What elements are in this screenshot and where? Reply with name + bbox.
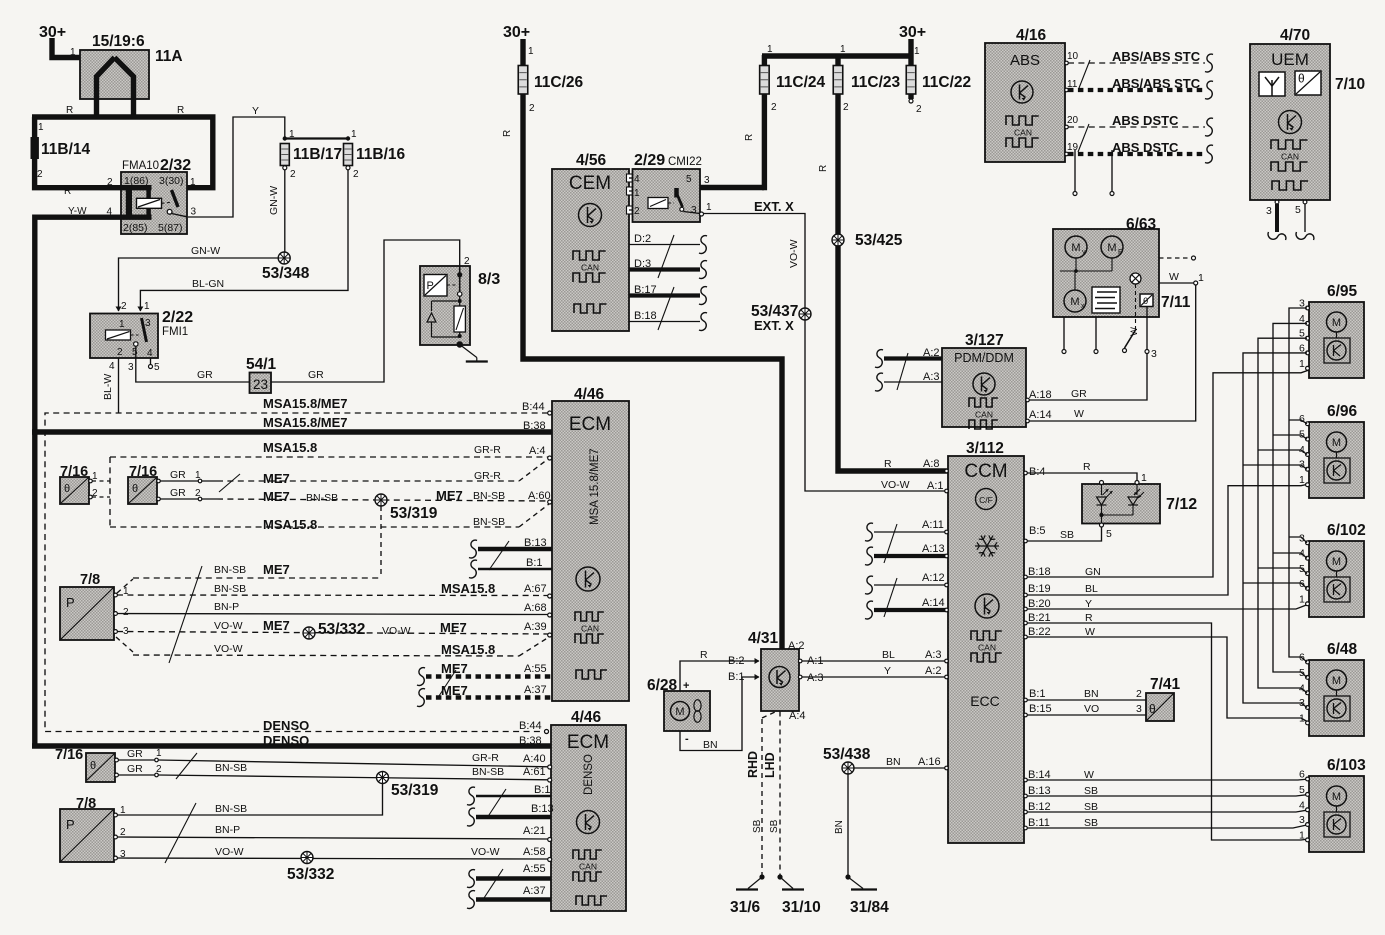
svg-text:2: 2 bbox=[37, 169, 43, 180]
svg-text:20: 20 bbox=[1067, 115, 1079, 126]
svg-text:LHD: LHD bbox=[763, 752, 777, 778]
ground 31/10 bbox=[777, 874, 782, 879]
svg-text:VO-W: VO-W bbox=[214, 643, 243, 655]
svg-text:R: R bbox=[177, 105, 184, 116]
svg-text:1: 1 bbox=[706, 202, 712, 213]
twisted pair marks CEM bbox=[658, 235, 674, 278]
svg-text:GR-R: GR-R bbox=[474, 470, 501, 482]
wire EXT.X from 2/29 pin 3 bbox=[700, 212, 704, 216]
6/63 motor Mf bbox=[1101, 236, 1123, 258]
svg-text:B:19: B:19 bbox=[1028, 583, 1051, 595]
svg-text:BL: BL bbox=[882, 649, 895, 661]
relay 2/22 bottom pins bbox=[118, 358, 120, 368]
svg-text:FMA10: FMA10 bbox=[122, 160, 159, 172]
svg-text:1: 1 bbox=[38, 122, 44, 133]
sensor 7/11 mirror thermostat bbox=[1140, 294, 1153, 307]
svg-text:1: 1 bbox=[119, 319, 125, 330]
wire GR GR-R to A:40 bbox=[118, 759, 155, 761]
svg-text:A:8: A:8 bbox=[923, 458, 940, 470]
svg-text:A:2: A:2 bbox=[925, 665, 942, 677]
svg-text:A:11: A:11 bbox=[922, 519, 944, 531]
svg-text:19: 19 bbox=[1067, 142, 1079, 153]
svg-text:7/41: 7/41 bbox=[1150, 676, 1181, 693]
svg-text:4: 4 bbox=[1299, 799, 1305, 811]
svg-text:B:1: B:1 bbox=[526, 557, 543, 569]
svg-text:A:18: A:18 bbox=[1029, 389, 1052, 401]
svg-text:53/332: 53/332 bbox=[318, 621, 365, 638]
wire SB B:13 to 6/103 pin5 bbox=[1024, 794, 1309, 796]
svg-text:1: 1 bbox=[634, 188, 640, 199]
twisted pair mark 7/8 lower bbox=[165, 803, 196, 863]
svg-text:2: 2 bbox=[1136, 688, 1142, 700]
svg-text:1: 1 bbox=[351, 129, 357, 140]
svg-text:6/102: 6/102 bbox=[1327, 522, 1366, 539]
svg-text:BN: BN bbox=[886, 756, 901, 768]
svg-text:2(85): 2(85) bbox=[123, 222, 148, 234]
fuse 11C/23 bbox=[833, 66, 843, 95]
svg-text:A:13: A:13 bbox=[922, 543, 945, 555]
wire main thick left bus down to ECM B:38 feeds bbox=[32, 215, 37, 747]
svg-text:BN: BN bbox=[703, 739, 718, 751]
sensor 7/10 temperature in UEM bbox=[1295, 71, 1321, 95]
svg-text:7/12: 7/12 bbox=[1166, 496, 1197, 513]
svg-text:2: 2 bbox=[107, 177, 113, 188]
wire right drop from R bus to relay pin 1 bbox=[174, 117, 213, 188]
wire BN from splice to ground 31/84 bbox=[847, 774, 849, 877]
svg-text:BN-SB: BN-SB bbox=[473, 516, 505, 528]
svg-text:VO: VO bbox=[1084, 703, 1099, 715]
svg-text:GR: GR bbox=[127, 763, 143, 775]
svg-text:R: R bbox=[700, 649, 708, 661]
6/63 motor Mx bbox=[1064, 290, 1086, 312]
svg-text:11A: 11A bbox=[155, 48, 183, 65]
6/63 internal links bbox=[1075, 258, 1077, 271]
svg-text:A:40: A:40 bbox=[523, 753, 546, 765]
svg-text:A:3: A:3 bbox=[923, 371, 940, 383]
svg-text:GN: GN bbox=[1085, 566, 1101, 578]
svg-text:4/16: 4/16 bbox=[1016, 27, 1047, 44]
svg-text:1: 1 bbox=[528, 46, 534, 57]
svg-text:MSA15.8/ME7: MSA15.8/ME7 bbox=[263, 396, 348, 411]
svg-text:A:2: A:2 bbox=[788, 640, 805, 652]
svg-text:1: 1 bbox=[840, 44, 846, 55]
lower ECM pin circles bbox=[545, 730, 549, 734]
svg-text:R: R bbox=[884, 458, 892, 470]
svg-text:GR: GR bbox=[1071, 388, 1087, 400]
wire 11B/14 to relay 2/32 pin 2 bbox=[35, 158, 121, 188]
wire R bus y=117 bbox=[32, 114, 216, 119]
harness chain wire D 6/95.6 chain bbox=[1243, 353, 1307, 708]
svg-text:-: - bbox=[685, 733, 689, 745]
svg-text:ECM: ECM bbox=[569, 414, 611, 435]
svg-text:θ: θ bbox=[1149, 702, 1156, 716]
svg-text:ME7: ME7 bbox=[263, 489, 290, 504]
svg-text:1: 1 bbox=[190, 177, 196, 188]
svg-text:PDM/DDM: PDM/DDM bbox=[954, 351, 1014, 365]
svg-text:6/96: 6/96 bbox=[1327, 403, 1358, 420]
svg-text:BL-GN: BL-GN bbox=[192, 278, 224, 290]
svg-text:B:18: B:18 bbox=[634, 310, 657, 322]
svg-text:31/10: 31/10 bbox=[782, 899, 821, 916]
svg-text:11C/26: 11C/26 bbox=[534, 74, 584, 91]
svg-text:4/70: 4/70 bbox=[1280, 27, 1310, 44]
8/3 ground bbox=[457, 341, 463, 347]
wire link 11B/17 pin1 to 11B/16 pin1 bbox=[285, 137, 348, 139]
wire GN-W from 11B/17 pin2 to splice 53/348 bbox=[284, 170, 286, 252]
svg-text:θ: θ bbox=[1143, 296, 1148, 307]
svg-text:A:14: A:14 bbox=[922, 597, 945, 609]
splice 53/319 bbox=[375, 494, 387, 506]
svg-text:3: 3 bbox=[1136, 703, 1142, 715]
svg-text:2: 2 bbox=[290, 169, 296, 180]
svg-text:B:13: B:13 bbox=[531, 803, 554, 815]
svg-text:MSA15.8: MSA15.8 bbox=[263, 517, 317, 532]
svg-text:4/46: 4/46 bbox=[571, 709, 602, 726]
svg-text:3(30): 3(30) bbox=[159, 175, 184, 187]
svg-text:3: 3 bbox=[145, 318, 151, 329]
svg-text:VO-W: VO-W bbox=[214, 620, 243, 632]
svg-text:1: 1 bbox=[1299, 829, 1305, 841]
wire R from 6/28 plus to 4/31 B:2 bbox=[680, 661, 759, 691]
svg-text:MSA15.8: MSA15.8 bbox=[441, 581, 495, 596]
wire BN-SB MSA15.8 to A:67 bbox=[117, 594, 548, 597]
wire Y 4/31 A:3 to CCM A:2 bbox=[801, 676, 949, 678]
svg-text:A:37: A:37 bbox=[523, 885, 546, 897]
fuse 15/19:6 11A bbox=[80, 50, 149, 99]
svg-text:2/29: 2/29 bbox=[634, 152, 665, 169]
svg-text:53/348: 53/348 bbox=[262, 265, 310, 282]
svg-text:ECM: ECM bbox=[567, 732, 609, 753]
svg-text:1: 1 bbox=[1299, 358, 1305, 370]
svg-text:CAN: CAN bbox=[975, 410, 993, 420]
svg-text:ABS/ABS STC: ABS/ABS STC bbox=[1112, 49, 1201, 64]
svg-text:GR-R: GR-R bbox=[474, 444, 501, 456]
svg-text:2: 2 bbox=[634, 206, 640, 217]
svg-text:CAN: CAN bbox=[978, 643, 996, 653]
svg-text:3/112: 3/112 bbox=[966, 440, 1004, 457]
wire SB B:12 to 6/103 pin4 bbox=[1024, 810, 1309, 812]
svg-text:GR: GR bbox=[197, 369, 213, 381]
wire W from terminal down to PDM A:14 bbox=[1027, 285, 1196, 421]
CEM right edge pin squares bbox=[627, 174, 634, 182]
svg-text:53/332: 53/332 bbox=[287, 866, 334, 883]
wire R B:21 to 6/103 pin1 bbox=[1024, 623, 1309, 840]
svg-text:A:55: A:55 bbox=[523, 863, 546, 875]
6/63 heater element bbox=[1092, 287, 1120, 313]
wire Y-W bus into relay pin 4 bbox=[121, 214, 152, 219]
svg-text:SB: SB bbox=[1084, 785, 1098, 797]
svg-text:BN-P: BN-P bbox=[215, 824, 240, 836]
svg-text:CAN: CAN bbox=[581, 263, 599, 273]
svg-text:5: 5 bbox=[1299, 784, 1305, 796]
svg-text:2/32: 2/32 bbox=[160, 157, 191, 174]
wire BL-GN from 11B/16 pin2 to relay 2/22 pin 1 bbox=[140, 170, 348, 311]
svg-text:R: R bbox=[66, 105, 73, 116]
svg-text:5(87): 5(87) bbox=[158, 222, 183, 234]
svg-text:4/31: 4/31 bbox=[748, 630, 779, 647]
svg-text:30+: 30+ bbox=[503, 24, 530, 41]
wire GR pin2 7/16 to A:60 via splice 53/319 bbox=[160, 498, 217, 500]
wire BN-SB from 7/8 pin1 up to splice 53/319 bbox=[117, 784, 383, 816]
svg-text:ME7: ME7 bbox=[441, 683, 468, 698]
wire left drop to 11B/14 bbox=[32, 117, 37, 140]
svg-text:ME7: ME7 bbox=[263, 618, 290, 633]
module 4/70 UEM bbox=[1250, 44, 1330, 200]
CCM K symbol bbox=[975, 594, 999, 618]
wire B:38 bus to lower ECM bbox=[32, 743, 552, 748]
wire 30+ to fuse 15/19:6 bbox=[52, 38, 115, 58]
svg-text:6/48: 6/48 bbox=[1327, 641, 1358, 658]
svg-text:4/56: 4/56 bbox=[576, 152, 607, 169]
svg-text:GR: GR bbox=[170, 487, 186, 499]
wire BL-W from 2/22 pin 4 down to dashed B:44 run bbox=[118, 368, 120, 413]
svg-text:B:1: B:1 bbox=[534, 784, 551, 796]
svg-text:5: 5 bbox=[686, 174, 692, 185]
svg-text:y: y bbox=[1082, 249, 1086, 256]
svg-text:B:18: B:18 bbox=[1028, 566, 1051, 578]
svg-text:M: M bbox=[1332, 317, 1341, 329]
svg-text:BN: BN bbox=[1084, 688, 1099, 700]
svg-text:B:4: B:4 bbox=[1029, 466, 1046, 478]
svg-text:MSA15.8: MSA15.8 bbox=[263, 440, 317, 455]
relay 2/32 FMA10 bbox=[121, 172, 187, 234]
svg-text:A:1: A:1 bbox=[807, 655, 824, 667]
svg-text:3: 3 bbox=[1299, 814, 1305, 826]
svg-text:CCM: CCM bbox=[964, 461, 1007, 482]
wire VO-W ME7 to A:39 via splice 53/332 bbox=[117, 632, 548, 635]
svg-text:B:20: B:20 bbox=[1028, 598, 1051, 610]
twisted pair mark 7/8 upper bbox=[169, 566, 202, 663]
svg-text:6: 6 bbox=[1299, 769, 1305, 781]
svg-text:P: P bbox=[66, 817, 75, 832]
svg-text:6/95: 6/95 bbox=[1327, 283, 1358, 300]
wires CEM to relay 2/29 bbox=[629, 177, 640, 179]
module 4/56 CEM bbox=[552, 169, 629, 331]
lamp unit 7/12 bbox=[1082, 484, 1160, 524]
svg-text:31/84: 31/84 bbox=[850, 899, 889, 916]
svg-text:6/103: 6/103 bbox=[1327, 757, 1366, 774]
svg-text:W: W bbox=[1085, 626, 1095, 638]
splice 53/319 lower bbox=[377, 772, 389, 784]
svg-text:5: 5 bbox=[1106, 528, 1112, 540]
svg-text:R: R bbox=[64, 186, 71, 197]
svg-text:3: 3 bbox=[1151, 348, 1157, 360]
twisted pair mark PDM bbox=[897, 353, 908, 390]
svg-text:2: 2 bbox=[353, 169, 359, 180]
svg-text:D:2: D:2 bbox=[634, 233, 651, 245]
svg-text:B:38: B:38 bbox=[523, 420, 546, 432]
svg-text:A:1: A:1 bbox=[927, 480, 944, 492]
splice 53/425 bbox=[832, 234, 844, 246]
svg-text:CAN: CAN bbox=[579, 862, 597, 872]
svg-text:2: 2 bbox=[529, 103, 535, 114]
svg-text:A:61: A:61 bbox=[523, 766, 546, 778]
svg-text:4: 4 bbox=[634, 174, 640, 185]
svg-text:VO-W: VO-W bbox=[471, 846, 500, 858]
wire BN-P to A:21 bbox=[117, 837, 548, 839]
svg-text:B:14: B:14 bbox=[1028, 769, 1051, 781]
svg-text:A:4: A:4 bbox=[789, 710, 806, 722]
svg-text:x: x bbox=[1081, 303, 1085, 310]
svg-text:EXT. X: EXT. X bbox=[754, 199, 794, 214]
svg-text:GR: GR bbox=[308, 369, 324, 381]
svg-text:RHD: RHD bbox=[746, 751, 760, 778]
svg-text:MSA15.8: MSA15.8 bbox=[441, 642, 495, 657]
relay 2/32 internal coil circuit bbox=[121, 185, 152, 190]
wire 30+ to fuse 11C/22 bbox=[908, 39, 913, 66]
svg-text:4: 4 bbox=[109, 361, 115, 372]
wire fuse element legs bbox=[97, 58, 115, 120]
svg-text:Y: Y bbox=[884, 665, 891, 677]
svg-text:1: 1 bbox=[1299, 474, 1305, 486]
relay 2/22 FMI1 bbox=[90, 314, 158, 359]
6/63 top terminals bbox=[1074, 150, 1076, 191]
wire GR from 54/1 to 8/3 pin 2 bbox=[271, 240, 460, 382]
svg-text:R: R bbox=[1085, 612, 1093, 624]
svg-text:A:4: A:4 bbox=[529, 445, 546, 457]
svg-text:1: 1 bbox=[1299, 593, 1305, 605]
svg-text:VO-W: VO-W bbox=[215, 846, 244, 858]
wire thick R from 53/425 to CCM A:8 bbox=[838, 246, 948, 471]
svg-text:2: 2 bbox=[117, 347, 123, 358]
svg-text:M: M bbox=[1332, 437, 1341, 449]
svg-text:2: 2 bbox=[156, 764, 162, 775]
wire GR BN-SB to A:61 via splice 53/319 bbox=[118, 774, 155, 776]
svg-text:M: M bbox=[1070, 296, 1079, 308]
svg-text:CMI22: CMI22 bbox=[668, 156, 702, 168]
svg-text:R: R bbox=[818, 165, 829, 172]
svg-text:3: 3 bbox=[691, 205, 697, 216]
svg-text:15/19:6: 15/19:6 bbox=[92, 33, 145, 50]
wire BN from 6/28 to 4/31 B:1 bbox=[680, 677, 759, 751]
wire 11C/24 down to 2/29 feed bbox=[762, 55, 767, 66]
svg-text:A:3: A:3 bbox=[925, 649, 942, 661]
svg-text:30+: 30+ bbox=[899, 24, 926, 41]
svg-text:ABS DSTC: ABS DSTC bbox=[1112, 113, 1179, 128]
svg-text:3: 3 bbox=[1266, 205, 1272, 217]
svg-text:3/127: 3/127 bbox=[965, 332, 1004, 349]
wire thick from 11C/24 into 2/29 pin 5 bbox=[700, 185, 764, 190]
svg-text:A:14: A:14 bbox=[1029, 409, 1052, 421]
svg-text:1: 1 bbox=[144, 301, 150, 312]
svg-text:4: 4 bbox=[147, 348, 153, 359]
svg-text:5: 5 bbox=[132, 347, 138, 358]
module 4/16 ABS bbox=[985, 43, 1065, 162]
UEM antenna symbol bbox=[1259, 72, 1285, 96]
svg-text:A:58: A:58 bbox=[523, 846, 546, 858]
svg-text:ME7: ME7 bbox=[436, 488, 463, 503]
fuse 11C/22 bbox=[906, 66, 916, 95]
svg-text:23: 23 bbox=[253, 377, 268, 392]
wire 30+ bus to 11C fuses top right bbox=[762, 53, 911, 58]
6/63 motor My bbox=[1065, 236, 1087, 258]
svg-text:R: R bbox=[1083, 461, 1091, 473]
svg-text:MSA15.8/ME7: MSA15.8/ME7 bbox=[263, 415, 348, 430]
svg-text:7/10: 7/10 bbox=[1335, 76, 1365, 93]
UEM CAN symbol bbox=[1271, 140, 1308, 149]
svg-text:5: 5 bbox=[154, 362, 160, 373]
harness chain wire B 6/95.4 chain bbox=[1273, 323, 1307, 677]
harness chain wire A 6/95.3 to 6/96.6 to 6/102.3 to 6/48.6 bbox=[1289, 308, 1307, 662]
svg-text:53/425: 53/425 bbox=[855, 232, 903, 249]
svg-text:ME7: ME7 bbox=[441, 661, 468, 676]
svg-text:R: R bbox=[502, 130, 513, 137]
UEM K symbol bbox=[1279, 111, 1302, 134]
CCM C/F symbol bbox=[976, 489, 997, 510]
svg-text:GR: GR bbox=[127, 748, 143, 760]
svg-text:CAN: CAN bbox=[581, 624, 599, 634]
svg-text:2: 2 bbox=[771, 102, 777, 113]
svg-text:P: P bbox=[427, 280, 434, 292]
svg-text:W: W bbox=[1084, 769, 1094, 781]
svg-text:A:39: A:39 bbox=[524, 621, 547, 633]
splice 53/437 EXT.X bbox=[799, 308, 811, 320]
svg-text:M: M bbox=[1107, 242, 1116, 254]
svg-text:M: M bbox=[1332, 556, 1341, 568]
svg-text:2: 2 bbox=[123, 607, 129, 618]
svg-text:11B/14: 11B/14 bbox=[41, 141, 91, 158]
wire Y-W from relay 2/32 pin4 to left bus bbox=[35, 214, 121, 219]
svg-text:11B/16: 11B/16 bbox=[356, 146, 406, 163]
svg-text:Y: Y bbox=[252, 105, 259, 117]
wire W terminal from 6/63 bbox=[1159, 282, 1194, 284]
svg-text:SB: SB bbox=[1060, 529, 1074, 541]
wire Y B:20 to 6/102 pin1 bbox=[1024, 604, 1309, 609]
svg-text:BN-P: BN-P bbox=[214, 601, 239, 613]
harness chain wire C 6/95.5 chain bbox=[1258, 338, 1307, 693]
6/63 bottom pins bbox=[1063, 317, 1065, 350]
svg-text:A:21: A:21 bbox=[523, 825, 546, 837]
svg-text:1: 1 bbox=[1198, 272, 1204, 284]
svg-text:θ: θ bbox=[1298, 72, 1305, 86]
svg-text:ABS DSTC: ABS DSTC bbox=[1112, 140, 1179, 155]
fuse 11B/14 bbox=[31, 137, 39, 159]
ground 31/6 bbox=[759, 874, 764, 879]
splice 53/332 bbox=[303, 627, 315, 639]
svg-text:M: M bbox=[1332, 791, 1341, 803]
wire GR from 7/11 pin3 to PDM A:18 bbox=[1027, 354, 1148, 401]
twisted pair mark 7/16 lower bbox=[176, 753, 197, 779]
svg-text:11C/22: 11C/22 bbox=[922, 74, 971, 91]
CCM edge pin circles bbox=[1024, 471, 1028, 475]
fuse 11C/26 bbox=[518, 66, 528, 95]
svg-text:BN-SB: BN-SB bbox=[215, 762, 247, 774]
svg-text:B:12: B:12 bbox=[1028, 801, 1051, 813]
svg-text:ECC: ECC bbox=[970, 693, 1000, 709]
svg-text:BN-SB: BN-SB bbox=[215, 803, 247, 815]
fuse 11B/16 bbox=[344, 144, 353, 166]
svg-text:BN-SB: BN-SB bbox=[306, 492, 338, 504]
PDM right pin labels bbox=[1026, 398, 1030, 402]
twisted pair mark 7/16 bbox=[219, 474, 240, 492]
svg-text:CAN: CAN bbox=[1014, 128, 1032, 138]
CCM CAN symbol bbox=[971, 631, 1002, 640]
module 3/112 CCM ECC bbox=[948, 456, 1024, 843]
svg-text:CEM: CEM bbox=[569, 173, 611, 194]
svg-text:W: W bbox=[1074, 408, 1084, 420]
svg-text:FMI1: FMI1 bbox=[162, 326, 188, 338]
wire 11C/23 down to splice 53/425 bbox=[835, 55, 840, 66]
splice 53/348 bbox=[278, 252, 290, 264]
svg-text:B:22: B:22 bbox=[1028, 626, 1051, 638]
svg-text:CAN: CAN bbox=[1281, 152, 1299, 162]
wire W B:22 to 6/48 pin1 bbox=[1024, 637, 1309, 723]
wire VO-W MSA15.8 lower branch bbox=[116, 637, 133, 652]
wire VO-W from splice down to CCM A:1 bbox=[805, 320, 948, 491]
8/3 diode symbol bbox=[427, 313, 436, 322]
relay 2/29 CMI22 bbox=[633, 169, 701, 222]
svg-text:B:5: B:5 bbox=[1029, 525, 1046, 537]
